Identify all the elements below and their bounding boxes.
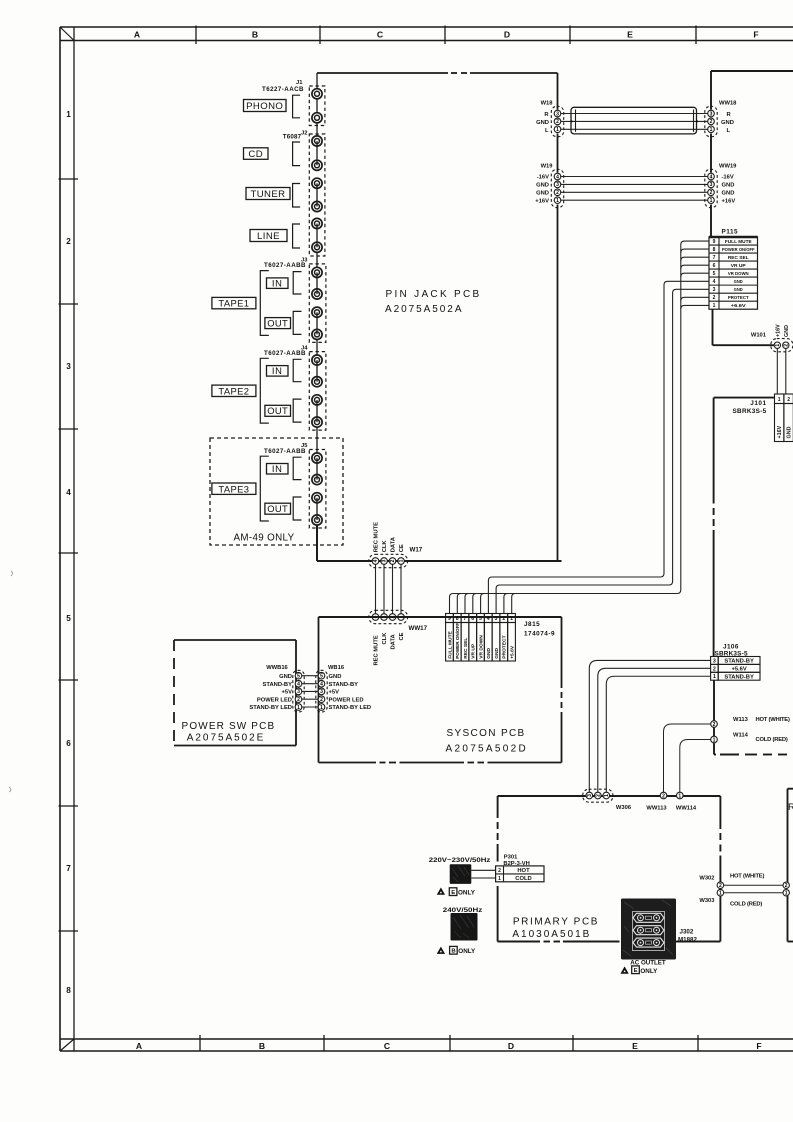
svg-text:W113: W113 — [733, 717, 749, 723]
svg-text:GND: GND — [721, 120, 734, 126]
svg-text:FULL MUTE: FULL MUTE — [447, 630, 453, 658]
svg-text:J815: J815 — [524, 621, 540, 628]
svg-text:COLD: COLD — [515, 876, 531, 882]
svg-text:STAND-BY LED: STAND-BY LED — [249, 705, 292, 711]
svg-text:4: 4 — [297, 682, 300, 688]
svg-text:2: 2 — [502, 616, 505, 622]
svg-text:VR UP: VR UP — [731, 263, 747, 269]
svg-text:GND: GND — [722, 190, 735, 196]
svg-text:CLK: CLK — [382, 632, 388, 645]
svg-text:1: 1 — [399, 559, 405, 562]
svg-text:PRIMARY PCB: PRIMARY PCB — [513, 917, 599, 928]
svg-text:A2075A502A: A2075A502A — [385, 304, 463, 315]
svg-text:M1882: M1882 — [678, 936, 697, 943]
svg-text:4: 4 — [556, 174, 559, 180]
svg-text:VR UP: VR UP — [471, 643, 477, 659]
svg-text:9: 9 — [713, 239, 716, 245]
svg-text:SBRK3S-5: SBRK3S-5 — [732, 408, 766, 415]
svg-text:IN: IN — [272, 365, 283, 376]
svg-text:OUT: OUT — [267, 503, 288, 514]
svg-text:VR DOWN: VR DOWN — [728, 271, 749, 277]
svg-text:+16V: +16V — [722, 198, 736, 204]
svg-text:LINE: LINE — [257, 231, 280, 242]
svg-text:W303: W303 — [699, 898, 715, 904]
svg-text:2: 2 — [713, 295, 716, 301]
svg-text:WW18: WW18 — [719, 101, 737, 107]
svg-text:IN: IN — [272, 277, 283, 288]
svg-text:4: 4 — [373, 559, 379, 562]
svg-text:SYSCON PCB: SYSCON PCB — [447, 728, 526, 739]
svg-text:WWB16: WWB16 — [266, 665, 288, 671]
svg-text:STAND-BY LED: STAND-BY LED — [329, 705, 372, 711]
svg-text:+5V: +5V — [282, 690, 293, 696]
svg-text:1: 1 — [678, 793, 681, 799]
svg-text:P301: P301 — [504, 855, 518, 861]
svg-text:2: 2 — [66, 237, 71, 246]
svg-text:2: 2 — [787, 397, 790, 403]
svg-text:1: 1 — [785, 891, 788, 897]
svg-text:6: 6 — [66, 739, 71, 748]
svg-text:DATA: DATA — [391, 536, 397, 552]
svg-text:2: 2 — [556, 190, 559, 196]
svg-text:4: 4 — [487, 616, 490, 622]
svg-text:GND: GND — [494, 647, 500, 658]
svg-text:1: 1 — [498, 876, 501, 882]
svg-text:3: 3 — [556, 182, 559, 188]
svg-text:2: 2 — [596, 794, 602, 797]
svg-text:WW113: WW113 — [646, 806, 667, 812]
svg-text:A: A — [136, 1041, 142, 1051]
svg-text:2: 2 — [556, 119, 559, 125]
svg-text:220V~230V/50Hz: 220V~230V/50Hz — [429, 857, 491, 864]
svg-text:GND: GND — [787, 426, 793, 438]
svg-text:J2: J2 — [301, 131, 307, 137]
svg-text:7: 7 — [713, 255, 716, 261]
svg-text:E: E — [627, 30, 633, 40]
svg-text:GND: GND — [734, 279, 743, 285]
svg-text:174074-9: 174074-9 — [524, 631, 555, 638]
svg-text:IN: IN — [272, 463, 283, 474]
svg-text:L: L — [727, 128, 731, 134]
svg-text:2: 2 — [320, 697, 323, 703]
svg-text:T6027-AABB: T6027-AABB — [264, 448, 306, 455]
svg-text:8: 8 — [713, 247, 716, 253]
svg-text:+16V: +16V — [777, 425, 783, 438]
svg-text:TAPE1: TAPE1 — [218, 298, 249, 309]
svg-text:WW19: WW19 — [719, 164, 737, 170]
svg-text:GND: GND — [734, 287, 743, 293]
svg-text:4: 4 — [713, 279, 716, 285]
svg-text:5: 5 — [479, 616, 482, 622]
svg-text:1: 1 — [710, 127, 713, 133]
svg-text:REC MUTE: REC MUTE — [374, 522, 380, 552]
svg-text:OUT: OUT — [267, 317, 288, 328]
svg-text:A2075A502E: A2075A502E — [187, 733, 265, 744]
svg-text:TUNER: TUNER — [250, 189, 285, 200]
svg-text:2: 2 — [785, 883, 788, 889]
svg-text:C: C — [384, 1041, 390, 1051]
svg-text:3: 3 — [320, 689, 323, 695]
svg-text:4: 4 — [320, 682, 323, 688]
svg-text:+5.6V: +5.6V — [731, 666, 746, 672]
svg-text:1: 1 — [556, 198, 559, 204]
svg-text:T6027-AABB: T6027-AABB — [264, 262, 306, 269]
svg-text:HOT (WHITE): HOT (WHITE) — [730, 874, 764, 880]
svg-text:8: 8 — [456, 616, 459, 622]
svg-text:TAPE2: TAPE2 — [218, 385, 249, 396]
svg-text:J302: J302 — [680, 929, 694, 936]
svg-text:REC MUTE: REC MUTE — [374, 635, 380, 665]
svg-text:R: R — [788, 802, 793, 813]
svg-text:CLK: CLK — [382, 540, 388, 553]
svg-text:WB16: WB16 — [328, 665, 345, 671]
svg-text:3: 3 — [495, 616, 498, 622]
svg-text:3: 3 — [66, 362, 71, 371]
svg-text:1: 1 — [320, 705, 323, 711]
svg-text:POWER ON/OFF: POWER ON/OFF — [722, 247, 755, 252]
svg-text:STAND-BY: STAND-BY — [724, 658, 754, 664]
svg-text:E: E — [451, 890, 455, 896]
svg-text:2: 2 — [390, 559, 396, 562]
svg-text:REC SEL: REC SEL — [728, 255, 749, 261]
svg-text:1: 1 — [713, 737, 716, 743]
svg-text:3: 3 — [382, 559, 388, 562]
svg-text:POWER LED: POWER LED — [329, 697, 364, 703]
svg-text:5: 5 — [297, 674, 300, 680]
svg-text:+5V: +5V — [329, 690, 340, 696]
svg-text:2: 2 — [710, 119, 713, 125]
svg-text:ONLY: ONLY — [458, 890, 476, 897]
svg-text:CE: CE — [399, 632, 405, 640]
svg-text:1: 1 — [710, 198, 713, 204]
svg-text:W101: W101 — [751, 333, 767, 339]
svg-text:C: C — [377, 30, 383, 40]
svg-text:POWER ON/OFF: POWER ON/OFF — [455, 623, 460, 659]
svg-text:3: 3 — [713, 658, 716, 664]
svg-text:E: E — [632, 1041, 638, 1051]
svg-text:OUT: OUT — [267, 405, 288, 416]
svg-text:+6.6V: +6.6V — [731, 303, 747, 309]
svg-text:GND: GND — [536, 190, 549, 196]
svg-text:GND: GND — [536, 183, 549, 189]
svg-text:J101: J101 — [750, 400, 766, 407]
svg-text:ONLY: ONLY — [458, 948, 476, 955]
svg-text:FULL MUTE: FULL MUTE — [725, 239, 753, 245]
svg-text:F: F — [753, 30, 758, 40]
svg-text:1: 1 — [297, 705, 300, 711]
svg-text:2: 2 — [713, 722, 716, 728]
svg-text:1: 1 — [778, 397, 781, 403]
svg-text:HOT (WHITE): HOT (WHITE) — [756, 717, 790, 723]
svg-text:STAND-BY: STAND-BY — [329, 682, 359, 688]
svg-text:B: B — [451, 949, 455, 955]
svg-text:2: 2 — [710, 190, 713, 196]
svg-text:5: 5 — [713, 271, 716, 277]
svg-text:5: 5 — [320, 674, 323, 680]
svg-text:STAND-BY: STAND-BY — [262, 682, 292, 688]
svg-text:VR DOWN: VR DOWN — [478, 635, 484, 659]
svg-text:1: 1 — [713, 674, 716, 680]
svg-text:B: B — [259, 1041, 265, 1051]
svg-text:A1030A501B: A1030A501B — [512, 929, 591, 940]
svg-text:T6087: T6087 — [283, 134, 302, 141]
svg-text:GND: GND — [279, 674, 292, 680]
svg-text:GND: GND — [784, 325, 790, 337]
svg-text:HOT: HOT — [517, 868, 530, 874]
svg-text:240V/50Hz: 240V/50Hz — [443, 907, 483, 914]
svg-text:B: B — [252, 30, 258, 40]
svg-text:+16V: +16V — [776, 324, 782, 337]
svg-text:L: L — [545, 128, 549, 134]
svg-text:2: 2 — [713, 666, 716, 672]
svg-text:DATA: DATA — [391, 633, 397, 649]
svg-text:WW114: WW114 — [676, 806, 697, 812]
svg-text:1: 1 — [713, 303, 716, 309]
svg-text:T6227-AACB: T6227-AACB — [262, 86, 304, 93]
svg-text:PROTECT: PROTECT — [502, 635, 508, 658]
svg-text:W19: W19 — [541, 164, 554, 170]
svg-text:3: 3 — [713, 287, 716, 293]
svg-text:W302: W302 — [699, 876, 714, 882]
svg-text:STAND-BY: STAND-BY — [724, 674, 754, 680]
svg-text:3: 3 — [710, 111, 713, 117]
svg-text:A2075A502D: A2075A502D — [446, 744, 529, 755]
svg-text:COLD (RED): COLD (RED) — [756, 737, 788, 743]
svg-text:GND: GND — [722, 183, 735, 189]
svg-text:+5.6V: +5.6V — [509, 645, 515, 659]
svg-text:3: 3 — [297, 689, 300, 695]
svg-text:2: 2 — [498, 868, 501, 874]
svg-text:F: F — [756, 1041, 761, 1051]
svg-text:2: 2 — [784, 344, 790, 347]
svg-text:3: 3 — [587, 794, 593, 797]
svg-text:SBRK3S-5: SBRK3S-5 — [715, 650, 748, 657]
svg-text:PIN JACK PCB: PIN JACK PCB — [386, 289, 482, 300]
svg-text:1: 1 — [775, 344, 781, 347]
svg-text:7: 7 — [464, 616, 467, 622]
svg-text:CD: CD — [248, 149, 263, 160]
svg-text:7: 7 — [66, 864, 71, 873]
svg-text:5: 5 — [66, 614, 71, 623]
svg-text:4: 4 — [66, 488, 71, 497]
svg-text:6: 6 — [471, 616, 474, 622]
svg-text:W306: W306 — [616, 805, 632, 811]
svg-text:-16V: -16V — [537, 175, 549, 181]
svg-text:W114: W114 — [733, 733, 749, 739]
svg-text:POWER SW PCB: POWER SW PCB — [182, 721, 276, 732]
svg-text:P115: P115 — [722, 229, 739, 236]
svg-text:A: A — [134, 30, 140, 40]
svg-text:PROTECT: PROTECT — [728, 295, 749, 301]
svg-text:1: 1 — [604, 794, 610, 797]
svg-text:AM-49 ONLY: AM-49 ONLY — [233, 533, 294, 544]
svg-text:6: 6 — [713, 263, 716, 269]
svg-text:TAPE3: TAPE3 — [218, 483, 249, 494]
svg-text:+16V: +16V — [535, 198, 549, 204]
svg-text:2: 2 — [297, 697, 300, 703]
svg-text:2: 2 — [662, 793, 665, 799]
svg-text:4: 4 — [710, 174, 713, 180]
svg-text:COLD (RED): COLD (RED) — [730, 902, 762, 908]
svg-text:POWER LED: POWER LED — [257, 697, 292, 703]
svg-text:T6027-AABB: T6027-AABB — [264, 350, 306, 357]
svg-text:E: E — [634, 968, 638, 974]
svg-text:PHONO: PHONO — [246, 101, 283, 112]
svg-text:W17: W17 — [410, 547, 423, 554]
svg-text:1: 1 — [66, 110, 71, 119]
svg-text:1: 1 — [510, 616, 513, 622]
svg-text:CE: CE — [399, 544, 405, 552]
svg-text:D: D — [508, 1041, 514, 1051]
svg-text:REC SEL: REC SEL — [463, 638, 469, 659]
svg-text:GND: GND — [486, 647, 492, 658]
svg-text:8: 8 — [66, 986, 71, 995]
svg-text:ONLY: ONLY — [640, 968, 658, 975]
svg-text:1: 1 — [719, 891, 722, 897]
svg-text:9: 9 — [448, 616, 451, 622]
svg-text:-16V: -16V — [722, 175, 734, 181]
svg-text:3: 3 — [710, 182, 713, 188]
svg-text:GND: GND — [536, 120, 549, 126]
svg-text:W18: W18 — [541, 101, 554, 107]
svg-text:3: 3 — [556, 111, 559, 117]
svg-text:GND: GND — [329, 674, 342, 680]
svg-text:WW17: WW17 — [409, 625, 428, 632]
svg-text:1: 1 — [556, 127, 559, 133]
svg-text:D: D — [504, 30, 510, 40]
svg-text:2: 2 — [719, 883, 722, 889]
